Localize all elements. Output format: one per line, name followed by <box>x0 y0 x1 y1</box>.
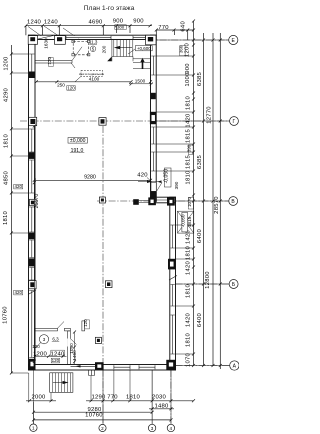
svg-text:4100: 4100 <box>89 77 100 82</box>
svg-text:9280: 9280 <box>84 175 96 181</box>
svg-text:План 1-го этажа: План 1-го этажа <box>84 5 135 12</box>
dim line 9280 hall <box>34 179 150 181</box>
column top-left corner <box>28 36 37 45</box>
svg-text:380: 380 <box>117 25 125 30</box>
svg-text:1810: 1810 <box>3 210 9 225</box>
stairs upper arrow <box>116 47 132 49</box>
R4 ticks <box>219 39 222 368</box>
axis circle Е <box>229 35 238 44</box>
svg-text:6,3: 6,3 <box>52 337 59 342</box>
axis circle А <box>230 361 239 370</box>
svg-text:-0,050: -0,050 <box>164 169 170 184</box>
svg-text:191,0: 191,0 <box>71 148 84 154</box>
left dim ticks <box>10 53 13 375</box>
svg-text:А: А <box>233 364 237 370</box>
svg-text:3: 3 <box>151 426 154 431</box>
svg-text:120: 120 <box>52 358 60 363</box>
svg-text:1810: 1810 <box>186 245 192 260</box>
axis 2 dash line vertical <box>102 126 104 424</box>
axis 1 line bottom <box>32 402 34 424</box>
svg-text:+0,600: +0,600 <box>137 46 151 51</box>
svg-text:10760: 10760 <box>3 306 9 324</box>
svg-text:1200: 1200 <box>4 56 10 71</box>
window left wall 4 <box>29 207 34 232</box>
corner column bottom-right <box>166 360 176 370</box>
svg-text:390: 390 <box>174 181 179 189</box>
corner column bottom-left <box>29 359 36 370</box>
dim 420 boxed left <box>14 184 23 189</box>
partition stub <box>82 321 85 331</box>
column axis2 room <box>95 337 101 343</box>
dim 1070 boxed rotated <box>188 198 193 210</box>
window bottom wall 2 <box>139 365 155 369</box>
svg-text:1630: 1630 <box>44 38 49 49</box>
svg-text:11,3: 11,3 <box>89 40 98 45</box>
leader 420 <box>147 178 153 183</box>
top dim ticks <box>24 24 151 27</box>
level box 0,000 hall <box>68 138 87 144</box>
window left wall 2 <box>29 129 34 152</box>
door opening jog wall <box>157 198 168 202</box>
partition annex <box>35 61 72 64</box>
svg-text:1200: 1200 <box>33 351 48 357</box>
pier left wall axis В <box>30 199 37 205</box>
dim line 4100 annex <box>36 81 131 83</box>
svg-text:640: 640 <box>180 21 186 32</box>
svg-text:1290: 1290 <box>91 394 106 400</box>
svg-text:1240: 1240 <box>44 20 59 26</box>
dim vertical room <box>74 332 76 364</box>
svg-text:900: 900 <box>133 19 144 25</box>
axis circle Г <box>230 117 239 126</box>
threshold steps below door <box>89 370 95 376</box>
R2 ticks <box>202 39 205 368</box>
svg-text:4850: 4850 <box>4 170 10 185</box>
window left wall 6 <box>29 268 34 281</box>
wire bottom dim row3 9280 <box>34 411 153 413</box>
leader from label <box>71 63 81 82</box>
pier left wall axis Б <box>29 281 36 289</box>
axis Б dash-dot line <box>176 283 230 285</box>
break tick east lower <box>169 276 177 281</box>
svg-text:1810: 1810 <box>186 170 192 185</box>
pier left wall y233 <box>29 233 35 240</box>
svg-text:1420: 1420 <box>186 312 192 327</box>
pier east wall y93 <box>151 93 156 99</box>
wire top dimension line <box>26 25 152 27</box>
window east upper 1500 <box>151 56 155 75</box>
svg-text:1460: 1460 <box>72 350 77 361</box>
svg-text:1420: 1420 <box>186 113 192 128</box>
window east upper 3 <box>151 152 155 171</box>
dim line 1500 window <box>129 83 153 85</box>
dim 390 boxed rotated <box>188 145 193 155</box>
axis circle 2 <box>99 424 106 431</box>
pier left wall y153 <box>29 152 35 159</box>
window top wall right <box>133 36 146 39</box>
wall east upper (axis 3) <box>151 35 157 201</box>
wire right dim line R4 28570 <box>219 33 221 369</box>
svg-text:120: 120 <box>47 57 52 65</box>
axis circle 3 <box>148 424 155 431</box>
svg-text:1480: 1480 <box>154 403 169 409</box>
window east lower 2 <box>171 285 175 307</box>
axis circle 1 <box>30 424 37 431</box>
door gap top-left corner <box>38 36 55 39</box>
window east upper 2 <box>151 127 155 144</box>
axis circle Б <box>229 280 238 289</box>
porch with X <box>178 211 194 233</box>
window left wall 7 long <box>29 291 34 358</box>
column top axis mid <box>55 36 66 45</box>
label 120 boxed room rotated <box>85 320 90 329</box>
svg-text:6385: 6385 <box>197 71 203 86</box>
column hall free at В <box>133 199 139 205</box>
svg-text:360: 360 <box>179 45 184 53</box>
door bottom wall <box>71 365 95 368</box>
R1 ticks <box>192 20 195 368</box>
svg-text:2000: 2000 <box>31 394 46 400</box>
level box -0,050 rotated <box>164 168 171 187</box>
svg-text:1500: 1500 <box>135 79 146 84</box>
wire bottom dim row1 right segments <box>86 400 194 402</box>
wire left dimension line <box>10 45 12 373</box>
column jog axis 3 x В <box>148 197 156 205</box>
window bottom wall 1 <box>114 365 130 369</box>
axis 4 dash line bottom <box>170 370 172 424</box>
break tick left wall <box>28 290 36 295</box>
stair direction arrow solid <box>140 58 144 69</box>
wall east lower (axis 4) <box>170 197 176 370</box>
room number circle 3 <box>39 335 48 344</box>
svg-text:2: 2 <box>101 426 104 431</box>
door swing diagonal corner <box>38 36 54 40</box>
svg-text:1815: 1815 <box>186 128 192 143</box>
svg-text:420: 420 <box>137 173 148 179</box>
svg-text:250: 250 <box>57 82 65 87</box>
svg-text:2030: 2030 <box>152 394 167 400</box>
top dim extension lines <box>26 26 188 40</box>
title <box>84 5 135 12</box>
interior vertical dim 25570 <box>33 126 35 364</box>
window east lower 1 <box>171 225 175 248</box>
dim 360 boxed rotated <box>180 46 185 56</box>
level box +0,600 <box>135 46 152 51</box>
column jog axis 4 x В <box>167 197 175 205</box>
svg-text:1200: 1200 <box>185 42 191 57</box>
svg-text:1810: 1810 <box>186 283 192 298</box>
svg-text:900: 900 <box>185 63 191 74</box>
svg-text:-0,050: -0,050 <box>181 214 186 227</box>
svg-text:1810: 1810 <box>186 332 192 347</box>
door gap vertical partition <box>67 339 70 347</box>
room number circle 5 <box>90 46 96 52</box>
svg-text:6400: 6400 <box>197 228 203 243</box>
svg-text:1240: 1240 <box>50 351 65 357</box>
column axis 2 x Г <box>99 118 106 126</box>
svg-text:4290: 4290 <box>4 87 10 102</box>
door swing bottom partition <box>58 322 65 329</box>
axis circle В <box>229 197 238 206</box>
svg-text:±0,000: ±0,000 <box>70 138 86 144</box>
level box -0,050 porch rotated <box>182 212 188 232</box>
svg-text:770: 770 <box>107 394 118 400</box>
svg-text:1810: 1810 <box>186 95 192 110</box>
svg-text:1070: 1070 <box>187 196 192 207</box>
bottom extension lines <box>29 370 171 425</box>
svg-text:Б: Б <box>232 282 236 288</box>
landing lines below stairs <box>133 59 151 69</box>
window left wall 3 <box>29 160 34 193</box>
svg-text:420: 420 <box>15 184 23 189</box>
axis В dash-dot line <box>97 200 229 202</box>
label 120 boxed room <box>51 358 59 363</box>
label 120 boxed annex rotated <box>49 58 54 67</box>
svg-text:4: 4 <box>169 426 172 431</box>
stairs upper treads <box>112 40 133 62</box>
column east wall axis Г <box>150 112 157 124</box>
window east lower 3 <box>171 315 175 354</box>
stairs black wedge start <box>107 57 111 62</box>
partition bottom rooms horizontal <box>35 328 58 331</box>
label 120 boxed below 250 <box>67 86 75 91</box>
left extension lines <box>11 54 28 373</box>
svg-text:Е: Е <box>232 38 236 44</box>
wire right dim line R3 12770 <box>212 33 214 366</box>
partition bottom rooms vertical <box>68 331 71 365</box>
svg-text:1420: 1420 <box>186 260 192 275</box>
axis А dash-dot line <box>176 365 230 367</box>
svg-text:200: 200 <box>102 45 107 53</box>
dim 420 boxed left lower <box>14 290 23 295</box>
svg-text:120: 120 <box>32 344 40 349</box>
svg-text:120: 120 <box>67 85 75 90</box>
svg-text:В: В <box>231 199 235 205</box>
svg-text:25570: 25570 <box>34 194 40 209</box>
column bottom wall axis 2 <box>95 362 104 370</box>
wall bottom (axis А) <box>29 365 176 371</box>
pier left wall y72 <box>29 72 35 79</box>
window left wall 1200 <box>29 54 34 73</box>
pier left wall axis Г <box>29 117 37 125</box>
column axis 2 x Б <box>105 281 112 288</box>
pier east lower y259 <box>168 259 176 270</box>
column axis 2 x В <box>99 197 105 203</box>
dim 420 arrows <box>138 181 159 183</box>
svg-text:390: 390 <box>187 144 192 152</box>
column top-right corner <box>146 35 156 45</box>
window left wall 5 <box>29 240 34 258</box>
equipment dashed square room 5 <box>73 41 88 54</box>
svg-text:12800: 12800 <box>205 271 211 289</box>
dim 380 boxed <box>115 25 127 30</box>
wire bottom dim row4 10760 <box>34 419 172 421</box>
svg-text:770: 770 <box>158 25 169 31</box>
pier left wall y259 <box>29 258 35 266</box>
axis Г dash-dot line <box>20 120 230 122</box>
row1 ticks <box>28 399 195 402</box>
wire bottom dim row1 left 2000 <box>26 400 56 402</box>
wire right dim line R1 segments <box>193 21 195 366</box>
wall left (axis 1) <box>29 35 36 370</box>
exterior stairs bottom treads <box>50 373 73 393</box>
svg-text:28570: 28570 <box>214 196 220 214</box>
window segment jog corner <box>151 182 156 191</box>
R3 ticks <box>212 39 215 368</box>
svg-text:1: 1 <box>32 426 35 431</box>
svg-text:120: 120 <box>83 319 88 327</box>
door swing annex partition <box>72 47 82 61</box>
dim line room 1200 1240 <box>35 355 67 357</box>
svg-text:1000: 1000 <box>185 72 191 87</box>
svg-text:6400: 6400 <box>197 312 203 327</box>
wall top (axis Е) <box>29 35 157 39</box>
svg-text:вых в подвальное: вых в подвальное <box>79 72 104 76</box>
pier jog corner <box>151 191 157 197</box>
axis Е dash-dot line <box>148 39 229 41</box>
axis circle 4 <box>167 424 174 431</box>
svg-text:4690: 4690 <box>88 20 103 26</box>
dashed label box вых в подвальное <box>81 70 103 76</box>
svg-text:1070: 1070 <box>186 352 192 367</box>
window top wall 4690 <box>66 36 111 39</box>
wall jog (axis В) <box>151 197 176 203</box>
svg-text:1810: 1810 <box>126 394 141 400</box>
svg-text:Г: Г <box>233 119 236 125</box>
svg-text:1240: 1240 <box>27 20 42 26</box>
svg-text:1810: 1810 <box>4 133 10 148</box>
svg-text:6385: 6385 <box>197 154 203 169</box>
door swing diagonals top-left <box>28 26 80 40</box>
right extension lines <box>156 40 229 366</box>
axis 3 line bottom <box>151 370 153 424</box>
svg-text:10760: 10760 <box>85 413 103 419</box>
svg-text:1815: 1815 <box>186 154 192 169</box>
wire right dim line R2 totals 6385 <box>203 33 205 366</box>
wire bottom dim row2 1480 <box>149 408 174 410</box>
svg-text:420: 420 <box>15 290 23 295</box>
exterior stairs arrow <box>53 382 67 384</box>
room label 11,3 underline <box>89 43 97 45</box>
leader to +0,600 <box>128 49 135 54</box>
